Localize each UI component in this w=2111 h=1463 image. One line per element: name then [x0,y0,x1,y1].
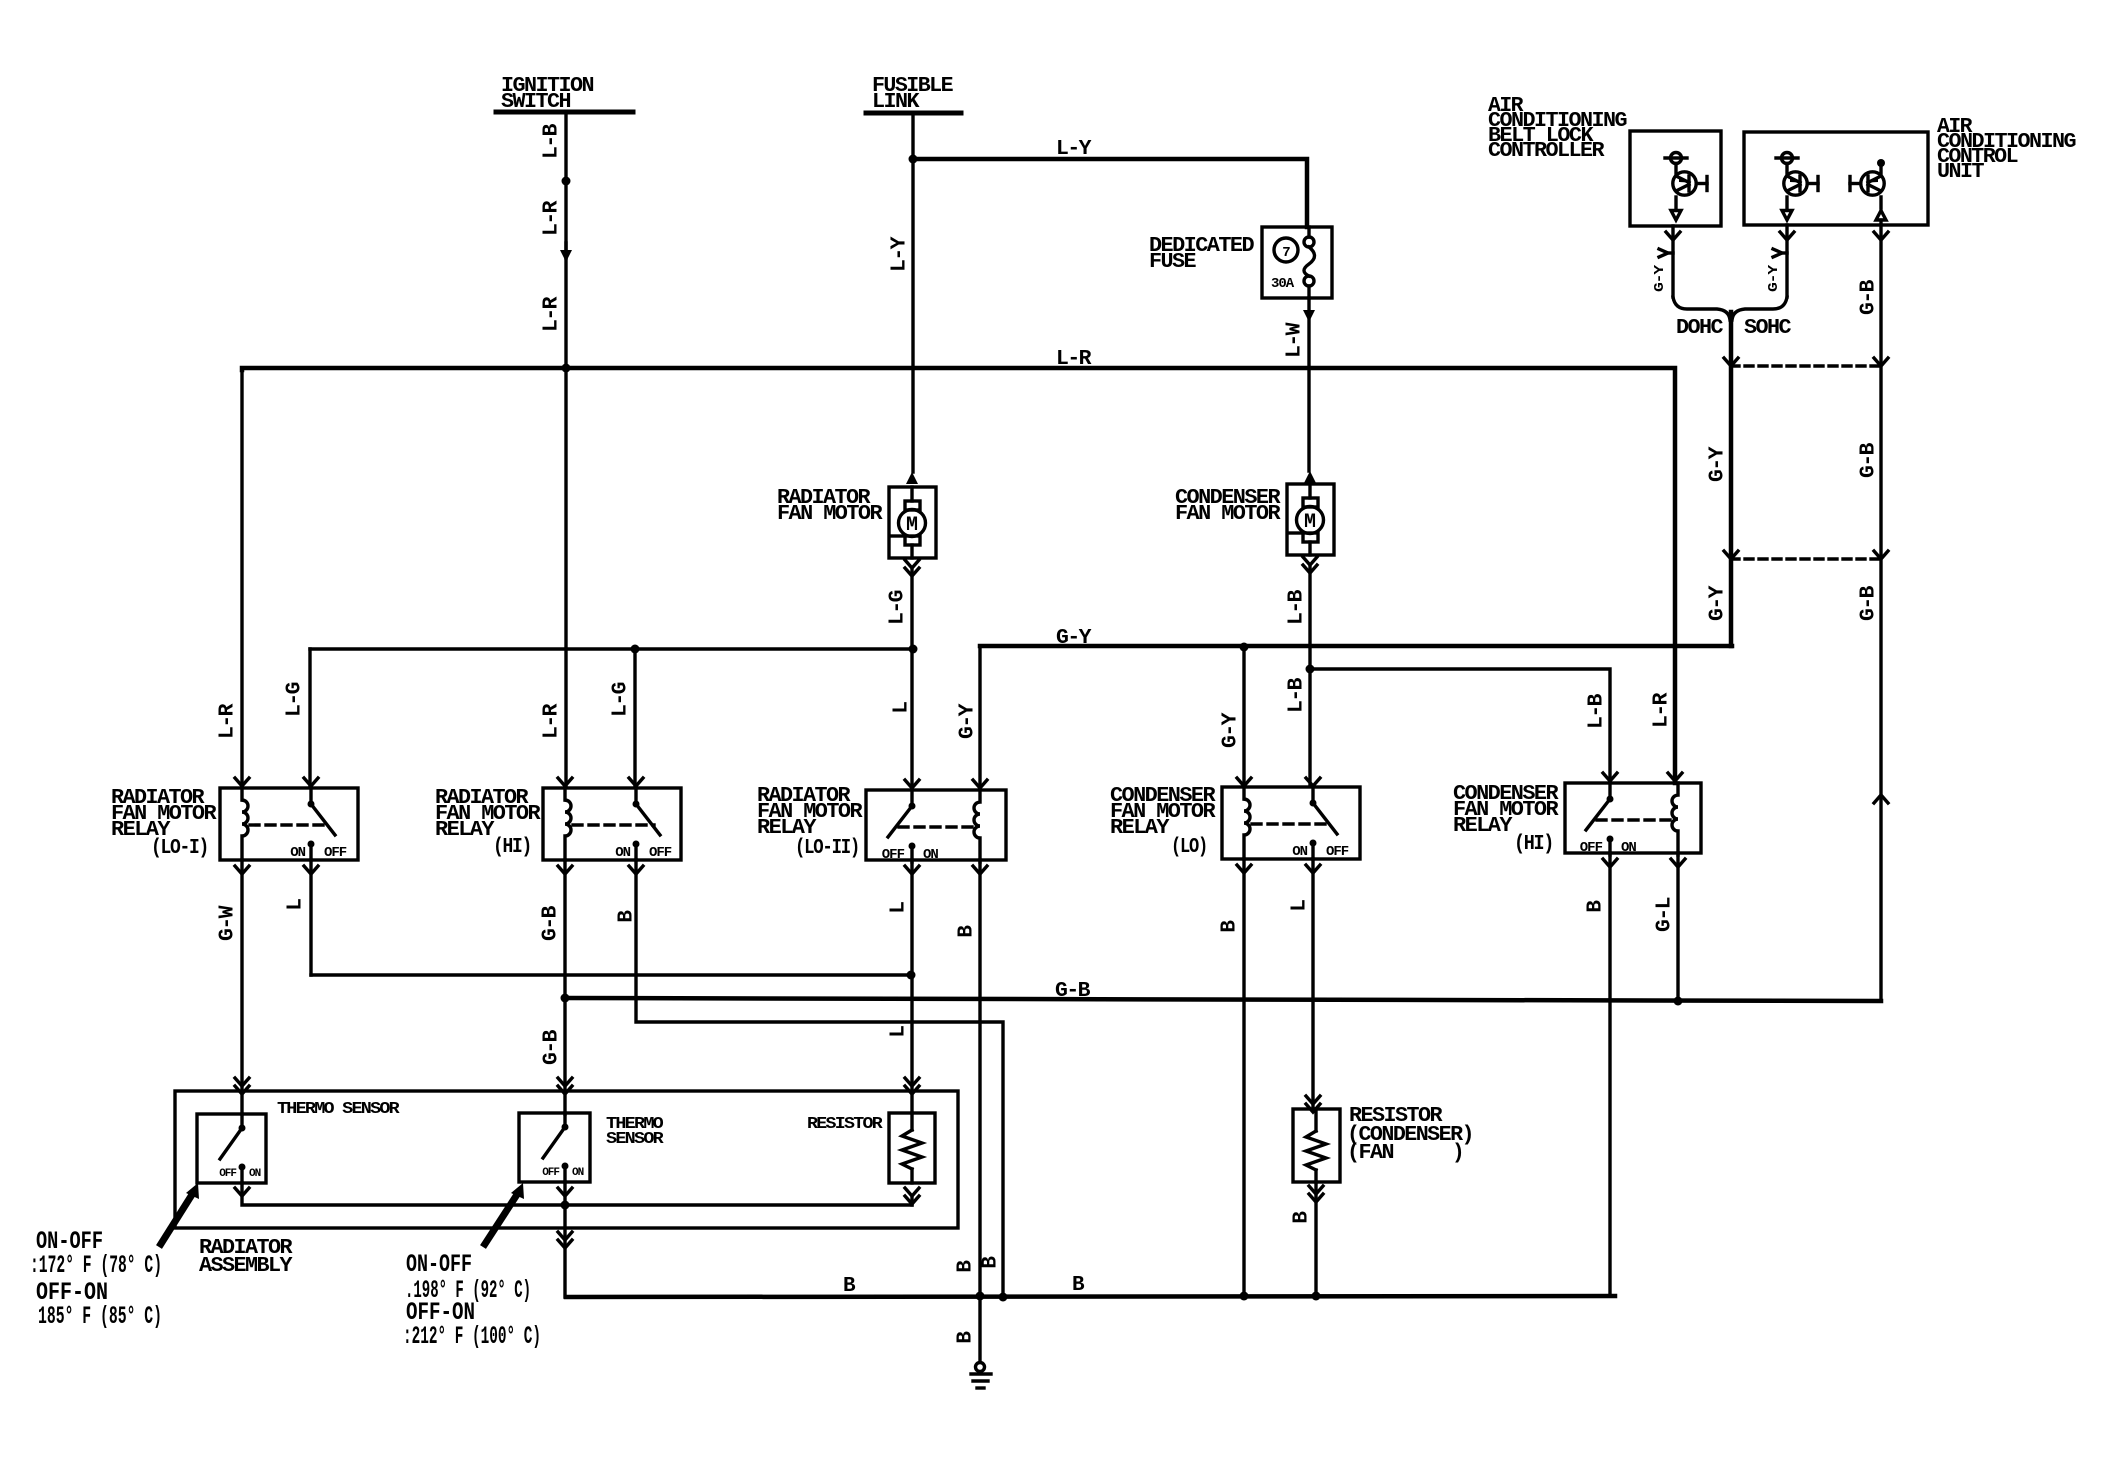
svg-text:L-G: L-G [610,682,633,717]
wire G-Y DOHC/SOHC down to G-Y net [1729,312,1734,646]
wire L relay K3 switch down to resistor [910,860,913,1113]
wire L from junction down to relay LO-II switch [910,649,913,788]
chevrons below resistor R1 [905,1188,919,1196]
svg-text:L-R: L-R [1651,692,1674,728]
svg-text:L-R: L-R [541,296,564,332]
svg-text:OFF: OFF [1326,844,1349,860]
wire L-W fuse to condenser fan motor [1307,227,1310,237]
svg-text:OFF: OFF [542,1167,559,1179]
svg-text:G-Y: G-Y [1220,712,1243,748]
wire G-W relay K1 coil to thermo sensor [240,860,243,1114]
chevrons into relay K3 [905,780,919,788]
node condenser resistor joins B bus [1312,1292,1321,1301]
svg-text:L-G: L-G [284,682,307,717]
svg-text:L-W: L-W [1284,322,1307,358]
arrow on G-Y vertical at dashed link 2 [1724,551,1738,559]
svg-text:L: L [891,702,914,714]
wire G-B down to thermo sensor 2 [563,998,566,1114]
wire L relay K1 switch to L run [309,860,312,975]
node G-B bus start at relay K2 coil wire [561,994,570,1003]
svg-text:L-R: L-R [1056,348,1092,371]
chevrons out of relay K1 [235,866,249,874]
chevrons into relay K1 [235,778,249,786]
transistor Q3 in control unit [1877,159,1885,167]
dashed link upper [1731,364,1881,367]
svg-text:L: L [888,902,911,914]
svg-text:CONTROLLER: CONTROLLER [1488,140,1605,163]
svg-text:B: B [956,925,979,938]
chevrons on G-B wire at radiator assembly [558,1078,572,1086]
connector mark on G-Y wire B [1773,249,1782,257]
relay K5 internals [1672,783,1678,855]
svg-text:G-Y: G-Y [1766,264,1782,292]
svg-text:G-B: G-B [1858,585,1881,621]
chevrons below condenser resistor [1309,1186,1323,1194]
motor M1 symbol [910,487,913,501]
wire L horizontal run [311,973,911,976]
wire G-Y net horizontal [980,644,1732,649]
wire L-G motor to junction [910,570,913,649]
relay K5 box [1565,783,1701,853]
arrow on G-Y vertical at dashed link 1 [1724,358,1738,366]
relay K4 internals [1244,787,1250,859]
wire L-Y horizontal to dedicated fuse [913,159,1307,227]
motor M2 condenser fan motor box [1287,484,1334,555]
svg-text:L-Y: L-Y [889,236,912,272]
wire L-B motor to junction [1308,567,1311,669]
chevron below belt lock box [1666,232,1680,240]
svg-text:B: B [843,1275,856,1298]
node G-Y branch to condenser LO coil [1240,643,1249,652]
chevrons out of relay K5 [1603,859,1617,867]
chevron below thermo sensor TS2 [558,1188,572,1196]
svg-text:UNIT: UNIT [1937,161,1984,184]
wire L relay K4 switch down to condenser resistor [1311,859,1314,1109]
wire G-B bus horizontal [565,998,1881,1001]
wire G-B from control unit [1879,225,1882,1001]
svg-text:G-Y: G-Y [1707,446,1730,482]
chevrons out of relay K2 [558,866,572,874]
wire G-Y from control unit [1785,225,1788,297]
svg-text:OFF: OFF [882,847,905,863]
svg-text:SENSOR: SENSOR [606,1130,665,1149]
wire L-R splice to L-R bus [564,181,567,368]
svg-text:B: B [955,1260,978,1273]
node L run joins LO-II switch wire [907,971,916,980]
arrow on L-W wire [1303,310,1315,322]
ground G1 [976,1363,985,1372]
svg-text:G-B: G-B [1858,442,1881,478]
wire B bus horizontal [566,1296,1615,1297]
relay K1 internals [242,788,248,860]
svg-text:DOHC: DOHC [1676,317,1724,340]
node L-Y tap on fusible wire [909,155,918,164]
svg-text:ON: ON [615,845,630,861]
svg-text:OFF: OFF [324,845,347,861]
connector mark on G-Y wire A [1659,249,1668,257]
svg-text:G-B: G-B [1055,980,1091,1003]
svg-text:OFF: OFF [219,1168,236,1180]
power rail bar (ignition switch) [496,110,633,115]
svg-text:ON-OFF: ON-OFF [406,1250,472,1279]
svg-text:B: B [980,1256,1003,1269]
transistor Q2 in control unit [1782,153,1793,164]
chevron below control unit pin 1 [1780,232,1794,240]
svg-text:(FAN: (FAN [1347,1142,1394,1165]
arrow down on ignition wire [564,243,567,258]
wire L-B ignition switch to splice [564,114,567,181]
svg-text:SOHC: SOHC [1744,317,1792,340]
wire G-Y down to relay LO-II coil [978,646,981,788]
wire G-Y from belt lock controller [1671,226,1674,297]
transistor Q1 in belt lock controller [1671,153,1682,164]
svg-text:ON: ON [1292,844,1307,860]
resistor R1 box [889,1113,935,1183]
svg-text:G-L: G-L [1654,897,1677,932]
svg-text::212° F (100° C): :212° F (100° C) [403,1322,541,1351]
arrow on G-B vertical at dashed link 2 [1874,551,1888,559]
svg-text:M: M [906,514,918,537]
svg-text:B: B [1219,920,1242,933]
bracket DOHC/SOHC merge [1673,297,1730,320]
svg-text:L: L [285,899,308,911]
svg-text:L-B: L-B [1286,677,1309,713]
dashed link lower [1731,557,1881,560]
node L-B branch junction [1306,665,1315,674]
arrow into condenser fan motor [1304,471,1316,483]
svg-text:FUSE: FUSE [1149,251,1196,274]
relay K4 box [1222,787,1360,859]
svg-text:RELAY: RELAY [435,819,495,842]
chevron below control unit pin 2 [1874,232,1888,240]
svg-text:G-W: G-W [217,905,240,941]
svg-text:G-B: G-B [1858,279,1881,315]
chevrons on L wire at radiator assembly [905,1078,919,1086]
svg-text:B: B [1072,1274,1085,1297]
svg-text:B: B [1585,900,1608,913]
svg-text:FAN MOTOR: FAN MOTOR [777,503,883,526]
svg-text:M: M [1304,511,1316,534]
arrow into radiator fan motor [906,472,918,484]
svg-text:FAN MOTOR: FAN MOTOR [1175,503,1281,526]
wire B relay K3 coil down to B bus [978,860,981,1296]
chevrons into relay K5 [1603,773,1617,781]
thermo sensor TS1 switch [240,1114,243,1128]
svg-text:30A: 30A [1271,276,1295,292]
node L-G junction at motor wire [909,645,918,654]
node G-L joins G-B bus [1674,997,1683,1006]
svg-text:L-B: L-B [1286,589,1309,625]
wire L-G down to relay LO-I switch [308,649,311,786]
svg-text:(LO-I): (LO-I) [151,837,208,860]
chevrons out of relay K3 [905,866,919,874]
svg-text:L: L [1289,900,1312,912]
wire B relay K5 switch down to B bus [1610,853,1615,1296]
svg-text:THERMO SENSOR: THERMO SENSOR [277,1100,401,1119]
chevrons into relay K2 [558,778,572,786]
wire L-G down to relay HI switch [633,649,636,786]
A/C control unit box U2 [1744,132,1928,225]
svg-text:RESISTOR: RESISTOR [807,1115,884,1134]
svg-text:ON: ON [290,845,305,861]
svg-text:L-B: L-B [541,123,564,159]
wire thermo sensor TS1 to sensor net [242,1183,912,1205]
svg-text:(LO): (LO) [1171,836,1207,859]
node relay K3 B wire joins B bus [976,1292,985,1301]
chevrons on G-W wire at radiator assembly [235,1078,249,1086]
wire G-Y down to condenser LO coil [1242,647,1245,786]
svg-text::172° F (78° C): :172° F (78° C) [30,1251,162,1280]
wire B thermo sensor 2 down to B bus [565,1182,566,1297]
svg-text:L-G: L-G [887,590,910,625]
svg-text:ON: ON [249,1168,261,1180]
svg-text:L-R: L-R [541,200,564,236]
node splice on ignition wire [562,177,571,186]
chevrons below condenser fan motor [1303,557,1317,565]
motor M2 symbol [1308,484,1311,498]
radiator assembly box [175,1091,958,1228]
arrow on G-B vertical at dashed link 1 [1874,358,1888,366]
svg-text:(HI): (HI) [1514,833,1553,856]
wire B bus to ground [978,1296,981,1362]
svg-text:B: B [1291,1211,1314,1224]
motor M1 radiator fan motor box [889,487,936,558]
leader to thermo sensor 1 [159,1193,193,1247]
svg-text:G-B: G-B [541,1029,564,1065]
relay K2 internals [565,788,571,860]
svg-text:185° F (85° C): 185° F (85° C) [38,1302,162,1331]
svg-text:ON: ON [572,1167,584,1179]
thermo sensor TS1 box [197,1114,266,1183]
svg-text:ON: ON [923,847,938,863]
wire L-R branch down to relay LO-I coil [240,368,243,786]
thermo sensor TS2 switch [563,1113,566,1127]
svg-text:RELAY: RELAY [1453,815,1513,838]
chevrons into relay K4 [1237,778,1251,786]
svg-text:L-R: L-R [541,703,564,739]
svg-text:G-Y: G-Y [1056,627,1092,650]
wire B relay K4 coil down to B bus [1242,859,1245,1296]
wire L-G net horizontal [310,647,913,650]
svg-text:ON: ON [1621,840,1636,856]
wire B relay K2 switch down and right [636,860,1003,1297]
relay K3 internals [974,790,980,862]
wire L-R ignition continues to relay HI coil [564,368,567,786]
resistor R2 (condenser fan) box [1293,1109,1340,1182]
svg-text:B: B [616,910,639,923]
relay K2 box [543,788,681,860]
chevrons into condenser resistor [1306,1096,1320,1104]
wire fusible link down to radiator fan motor [911,115,914,472]
svg-text:B: B [955,1331,978,1344]
wire L-R bus (main horizontal) [242,368,1675,783]
fuse element [1304,237,1314,247]
svg-text:G-Y: G-Y [957,703,980,739]
arrow up on G-B vertical near relays [1874,795,1888,803]
svg-text:L: L [888,1026,911,1038]
resistor R1 element [910,1113,913,1130]
svg-text:G-Y: G-Y [1707,585,1730,621]
svg-text:L-B: L-B [1586,693,1609,729]
chevrons out of relay K4 [1237,865,1251,873]
wire resistor R1 to sensor net [910,1198,913,1205]
relay K3 box [866,790,1006,860]
relay K1 box [220,788,358,860]
svg-text:RELAY: RELAY [1110,817,1170,840]
svg-text:(HI): (HI) [493,836,531,859]
wire G-L relay K5 coil down to G-B bus [1676,853,1679,1001]
fuse F1 (30A) box [1262,227,1332,298]
leader to thermo sensor 2 [483,1193,518,1247]
svg-text:ASSEMBLY: ASSEMBLY [199,1255,293,1278]
svg-text:OFF: OFF [1580,840,1603,856]
node relay K4 B wire joins B bus [1240,1292,1249,1301]
node relay K2 B wire joins B bus [999,1293,1008,1302]
svg-text:L-R: L-R [217,703,240,739]
svg-text:G-Y: G-Y [1652,264,1668,292]
wire G-B relay K2 coil down [563,860,566,998]
thermo sensor TS2 box [519,1113,590,1182]
power rail bar (fusible link) [866,111,961,116]
A/C belt lock controller box U1 [1630,131,1721,226]
chevrons below radiator fan motor [905,560,919,568]
svg-text:L-Y: L-Y [1056,138,1092,161]
resistor R2 element [1314,1109,1317,1131]
fuse circuit number circle 7 [1274,238,1298,262]
svg-text:(LO-II): (LO-II) [795,837,859,860]
node ignition joins L-R bus [562,364,571,373]
node sensor net joins thermo sensor 2 wire [561,1201,570,1210]
wire L-B down to condenser LO switch [1308,669,1311,786]
node L-G branch to relay HI switch [631,645,640,654]
svg-text:): ) [1452,1142,1463,1165]
chevrons on TS2 wire below assembly box [558,1232,572,1240]
svg-text:OFF: OFF [649,845,672,861]
wire L-B branch to condenser HI switch [1310,669,1610,782]
svg-text:G-B: G-B [540,905,563,941]
chevron below thermo sensor TS1 [235,1188,249,1196]
wire B condenser resistor to B bus [1314,1182,1317,1296]
svg-text:7: 7 [1282,245,1290,261]
